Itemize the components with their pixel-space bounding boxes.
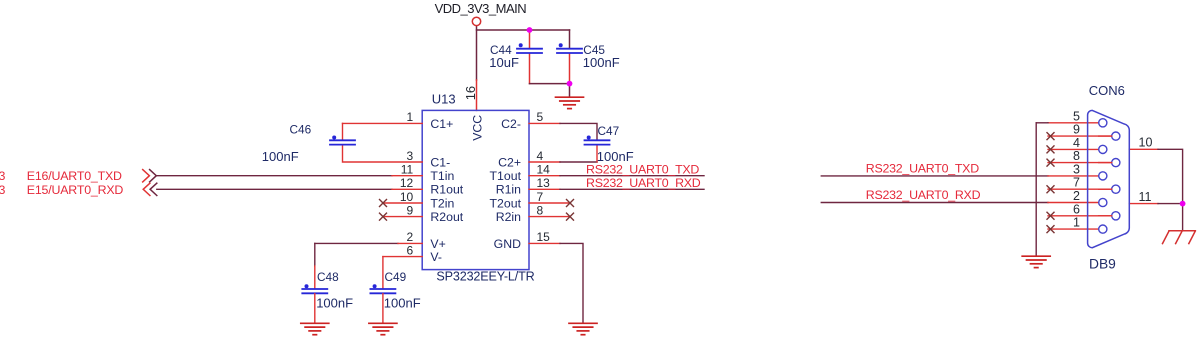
svg-text:C46: C46 [290, 123, 312, 137]
svg-text:14: 14 [537, 163, 551, 177]
svg-text:RS232_UART0_TXD: RS232_UART0_TXD [586, 163, 699, 177]
svg-text:6: 6 [407, 243, 414, 257]
svg-text:3: 3 [1073, 162, 1080, 176]
svg-text:SP3232EEY-L/TR: SP3232EEY-L/TR [436, 269, 534, 283]
svg-text:3: 3 [407, 149, 414, 163]
svg-text:8: 8 [537, 203, 544, 217]
svg-text:2: 2 [1073, 189, 1080, 203]
svg-text:100nF: 100nF [384, 296, 421, 311]
svg-text:C1-: C1- [430, 155, 450, 169]
svg-text:U13: U13 [432, 91, 456, 106]
svg-text:V+: V+ [430, 237, 445, 251]
svg-text:C48: C48 [317, 270, 339, 284]
svg-text:100nF: 100nF [316, 296, 353, 311]
svg-text:3: 3 [0, 183, 6, 197]
svg-text:RS232_UART0_TXD: RS232_UART0_TXD [866, 162, 979, 176]
svg-text:6: 6 [1073, 202, 1080, 216]
svg-text:12: 12 [400, 176, 414, 190]
svg-text:16: 16 [463, 86, 478, 100]
svg-text:1: 1 [407, 110, 414, 124]
svg-text:R2in: R2in [496, 210, 521, 224]
svg-text:C49: C49 [385, 270, 407, 284]
svg-text:DB9: DB9 [1089, 257, 1116, 272]
svg-text:E16/UART0_TXD: E16/UART0_TXD [27, 169, 122, 183]
svg-text:4: 4 [1073, 136, 1080, 150]
svg-text:VDD_3V3_MAIN: VDD_3V3_MAIN [435, 1, 527, 16]
svg-text:9: 9 [407, 203, 414, 217]
svg-text:11: 11 [401, 163, 414, 177]
svg-text:5: 5 [537, 110, 544, 124]
svg-text:4: 4 [537, 149, 544, 163]
svg-text:10: 10 [1139, 136, 1153, 150]
svg-text:R1out: R1out [430, 183, 463, 197]
svg-text:E15/UART0_RXD: E15/UART0_RXD [27, 183, 124, 197]
svg-text:T2out: T2out [490, 196, 522, 210]
svg-text:T1in: T1in [430, 169, 454, 183]
svg-text:100nF: 100nF [262, 149, 299, 164]
svg-text:9: 9 [1073, 123, 1080, 137]
svg-text:C47: C47 [598, 124, 620, 138]
svg-text:R1in: R1in [496, 183, 521, 197]
svg-text:RS232_UART0_RXD: RS232_UART0_RXD [866, 188, 981, 202]
svg-text:15: 15 [537, 230, 551, 244]
svg-text:C2-: C2- [501, 117, 521, 131]
svg-text:C1+: C1+ [430, 117, 453, 131]
svg-text:GND: GND [494, 237, 521, 251]
svg-text:T2in: T2in [430, 196, 454, 210]
svg-text:11: 11 [1139, 190, 1152, 204]
svg-text:2: 2 [407, 230, 414, 244]
svg-text:7: 7 [1073, 176, 1080, 190]
svg-text:13: 13 [537, 176, 551, 190]
svg-text:7: 7 [537, 190, 544, 204]
svg-text:3: 3 [0, 169, 6, 183]
svg-text:RS232_UART0_RXD: RS232_UART0_RXD [586, 176, 701, 190]
svg-text:5: 5 [1073, 109, 1080, 123]
svg-text:8: 8 [1073, 149, 1080, 163]
svg-text:VCC: VCC [470, 115, 484, 141]
svg-text:10: 10 [400, 190, 414, 204]
svg-text:100nF: 100nF [583, 55, 620, 70]
svg-text:V-: V- [430, 250, 442, 264]
svg-text:1: 1 [1073, 216, 1080, 230]
svg-text:T1out: T1out [490, 169, 522, 183]
svg-text:R2out: R2out [430, 210, 463, 224]
svg-text:10uF: 10uF [489, 55, 519, 70]
svg-text:CON6: CON6 [1089, 83, 1125, 98]
svg-text:C2+: C2+ [498, 155, 521, 169]
